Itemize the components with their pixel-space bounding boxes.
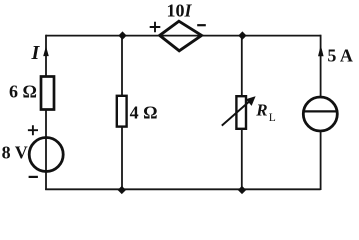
wire right branch lower: [320, 131, 322, 190]
svg-text:10I: 10I: [167, 1, 193, 21]
svg-text:4 Ω: 4 Ω: [130, 103, 158, 123]
variable arrow through RL: [222, 100, 252, 126]
current arrow I: [44, 47, 49, 56]
voltage source Vs 8V circle: [29, 138, 63, 172]
wire 4ohm branch upper: [121, 36, 123, 96]
dependent source U1 diamond 10I: [160, 21, 202, 51]
svg-text:I: I: [31, 42, 41, 64]
wire right branch upper: [320, 35, 322, 97]
wire left branch upper: [45, 35, 47, 77]
bar of current source: [304, 110, 338, 112]
resistor RL variable: [236, 96, 246, 129]
plus sign of 8V source: [28, 125, 38, 135]
svg-text:6 Ω: 6 Ω: [9, 82, 37, 102]
svg-text:L: L: [269, 112, 276, 124]
wire bottom rail: [45, 188, 320, 190]
resistor R 6ohm: [41, 77, 54, 110]
current source Is 5A circle: [303, 97, 337, 131]
wire RL branch upper: [241, 36, 243, 97]
plus sign of dependent source: [150, 22, 161, 33]
wire top rail: [46, 35, 321, 37]
wire left branch middle through source: [45, 110, 47, 191]
wire RL branch lower: [241, 129, 243, 190]
resistor 4ohm: [117, 96, 127, 127]
minus sign of 8V source: [29, 176, 38, 178]
svg-text:5 A: 5 A: [327, 45, 353, 65]
node junction bottom of 4ohm branch: [118, 186, 126, 194]
minus sign of dependent source: [197, 24, 206, 26]
node junction top of RL branch: [238, 31, 246, 39]
current arrow 5A: [318, 46, 323, 56]
svg-text:8 V: 8 V: [2, 142, 28, 162]
node junction top of 4ohm branch: [118, 31, 126, 39]
wire 4ohm branch lower: [121, 127, 123, 190]
node junction bottom of RL branch: [238, 186, 246, 194]
svg-text:R: R: [255, 101, 267, 120]
